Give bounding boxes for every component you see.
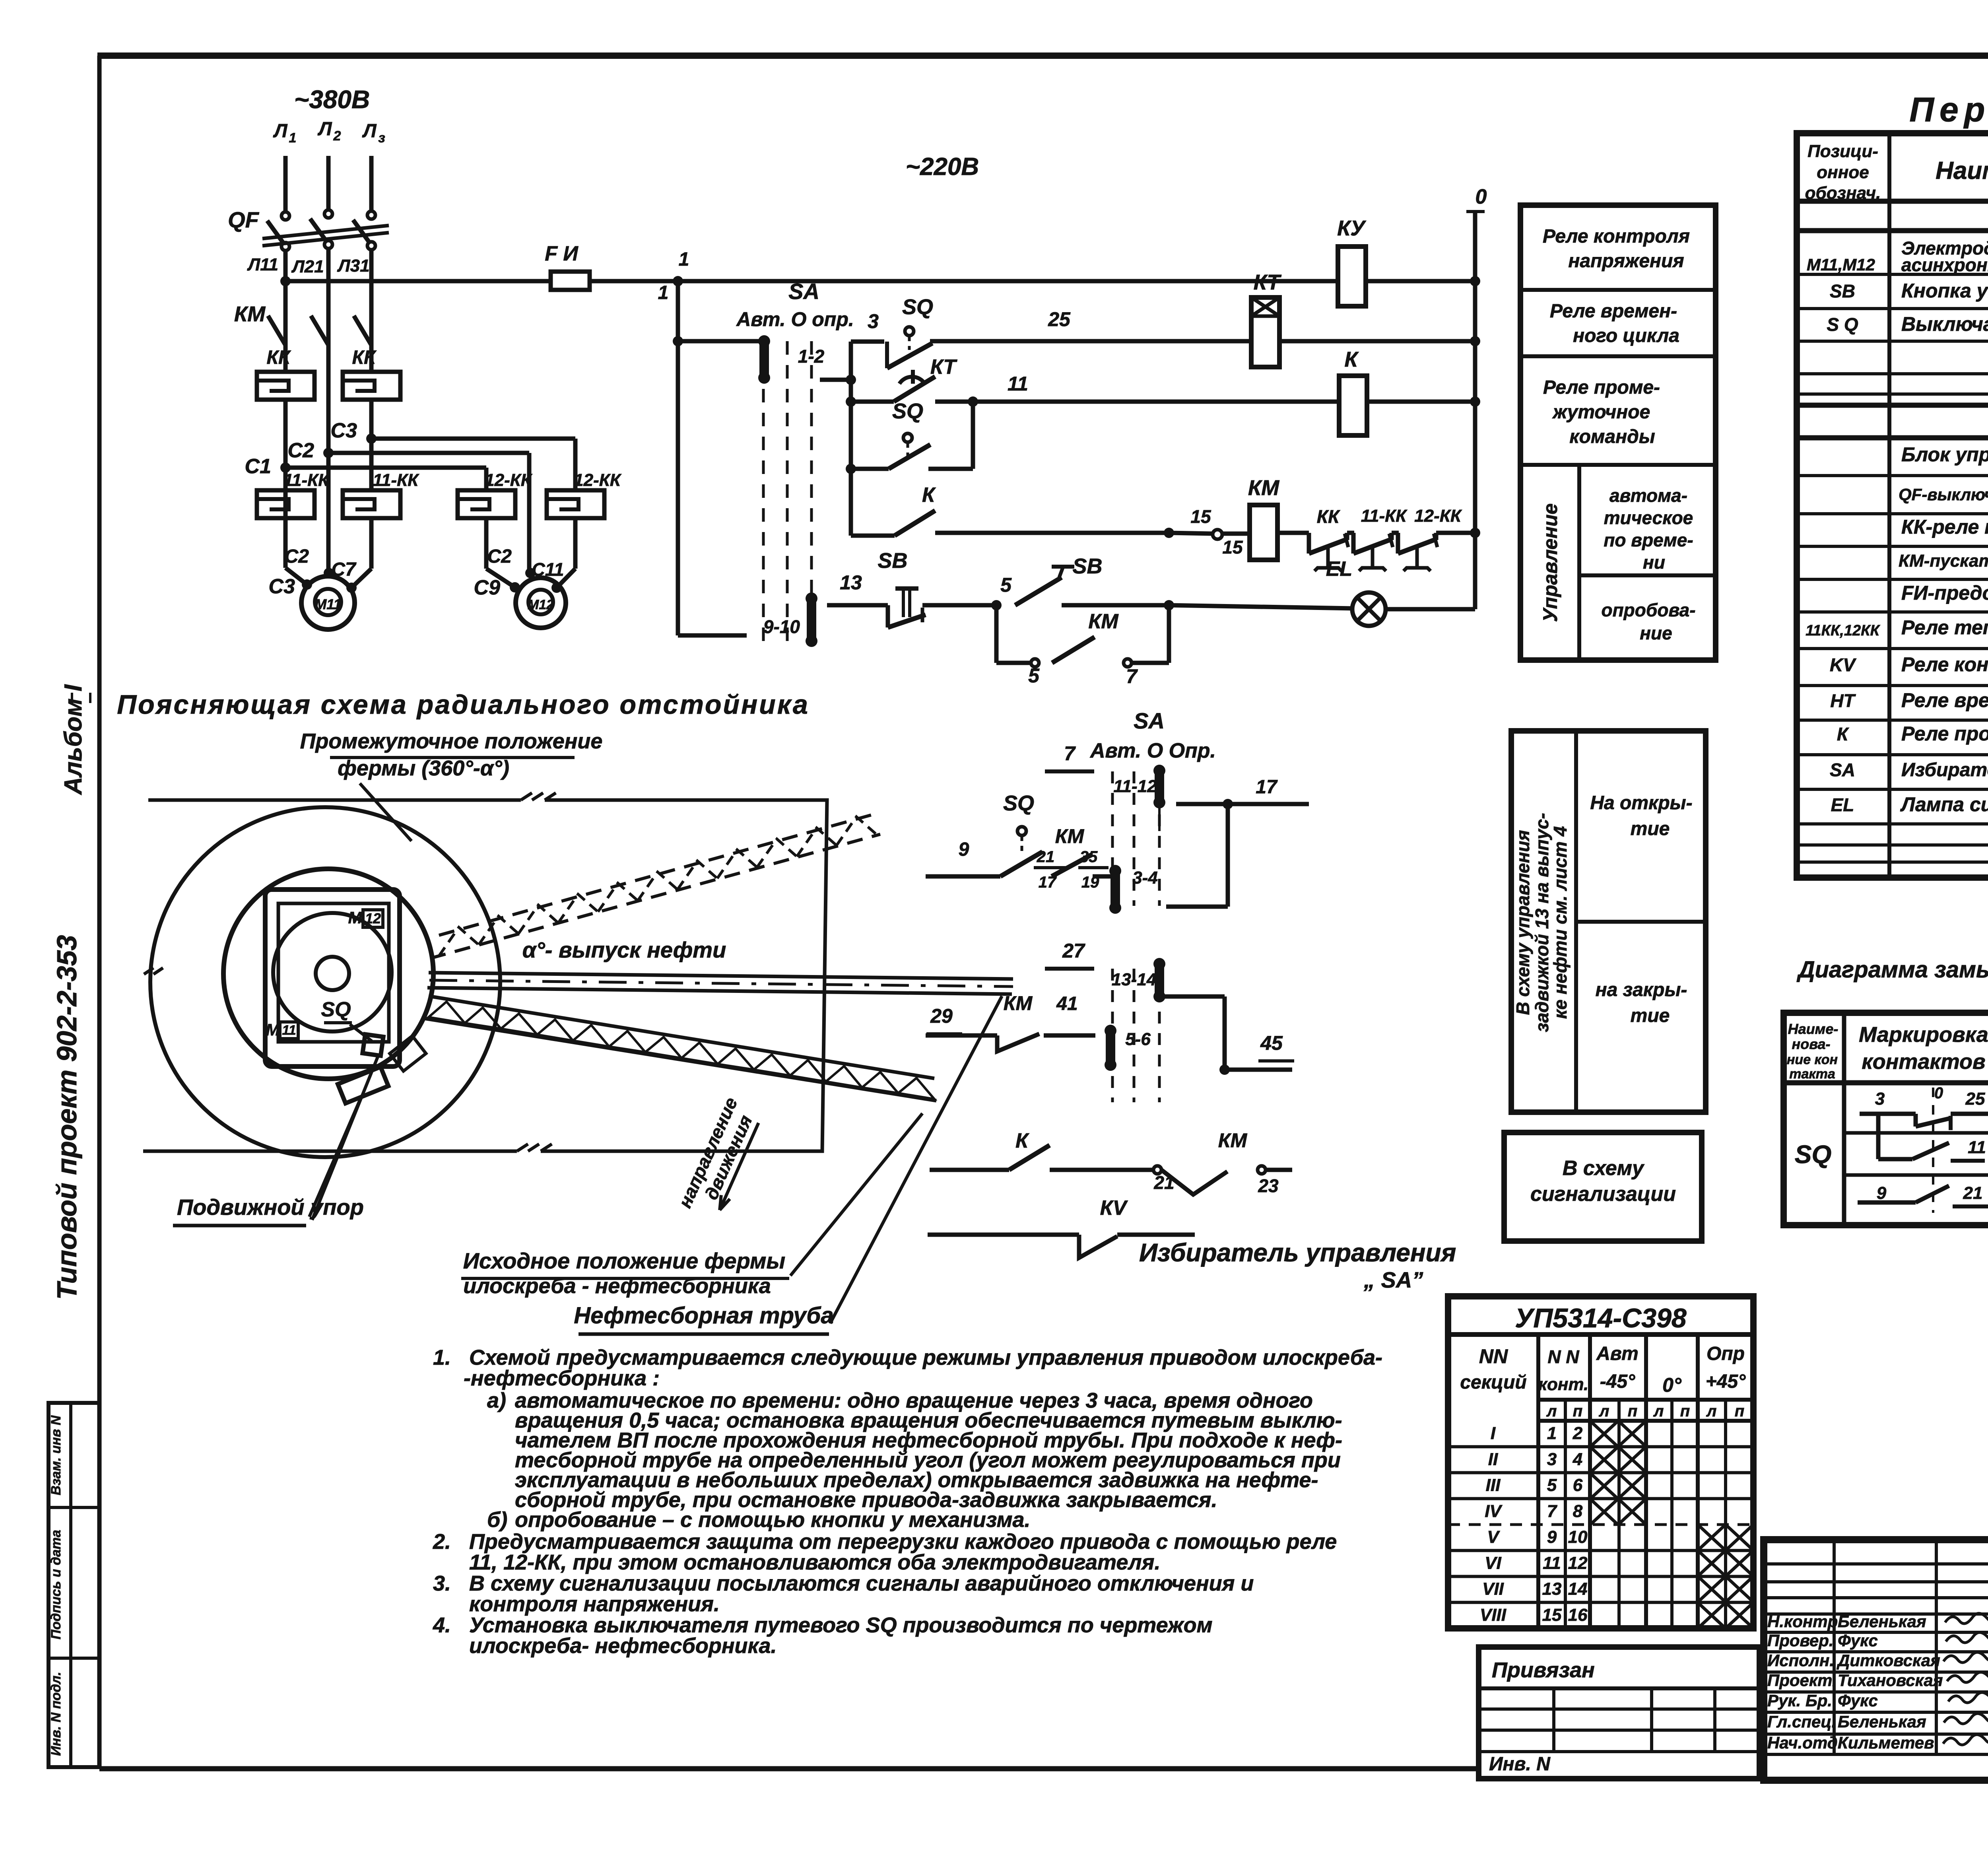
svg-text:Нач.отд.: Нач.отд.: [1767, 1733, 1842, 1752]
svg-text:13: 13: [840, 571, 862, 594]
svg-text:Наименование: Наименование: [1936, 157, 1988, 185]
svg-text:УП5314-С398: УП5314-С398: [1515, 1303, 1687, 1333]
svg-text:жуточное: жуточное: [1552, 402, 1650, 423]
svg-text:асинхронный: асинхронный: [1901, 254, 1988, 275]
svg-text:41: 41: [1056, 993, 1077, 1014]
svg-text:Авт. О Опр.: Авт. О Опр.: [1089, 739, 1216, 762]
svg-text:Л: Л: [318, 118, 332, 140]
svg-text:Фукс: Фукс: [1838, 1691, 1878, 1710]
svg-text:Тихановская: Тихановская: [1838, 1671, 1943, 1690]
svg-text:11-КК: 11-КК: [283, 470, 330, 490]
svg-text:В схему управления: В схему управления: [1512, 830, 1533, 1015]
svg-text:В схему: В схему: [1563, 1157, 1645, 1180]
svg-text:Дитковская: Дитковская: [1837, 1651, 1940, 1670]
svg-text:I: I: [1491, 1424, 1496, 1443]
svg-text:Схемой предусматривается сле: Схемой предусматривается следующие режим…: [469, 1346, 1382, 1369]
svg-text:9: 9: [959, 839, 969, 860]
svg-text:Н.контр.: Н.контр.: [1767, 1612, 1842, 1631]
svg-text:13: 13: [1542, 1579, 1562, 1599]
svg-text:КК-реле тепловое: КК-реле тепловое: [1901, 516, 1988, 538]
svg-text:КК: КК: [352, 347, 377, 368]
svg-text:КУ: КУ: [1337, 216, 1366, 240]
svg-text:Взам. инв N: Взам. инв N: [49, 1415, 64, 1495]
svg-text:обознач.: обознач.: [1805, 183, 1881, 203]
svg-text:15: 15: [1190, 506, 1211, 527]
svg-text:Наиме-: Наиме-: [1788, 1021, 1839, 1037]
svg-text:Исполн.: Исполн.: [1767, 1651, 1834, 1670]
svg-text:КК: КК: [1317, 506, 1340, 527]
svg-text:8: 8: [1573, 1501, 1583, 1521]
svg-text:Реле контроля напряж.: Реле контроля напряж.: [1901, 653, 1988, 676]
svg-text:0: 0: [1934, 1084, 1943, 1102]
svg-text:опробование – с помощью кноп: опробование – с помощью кнопки у механиз…: [515, 1508, 1031, 1532]
svg-text:Подпись и дата: Подпись и дата: [49, 1530, 64, 1639]
svg-text:л: л: [1706, 1402, 1717, 1420]
svg-text:С2: С2: [487, 546, 512, 567]
svg-text:2: 2: [1573, 1424, 1583, 1443]
svg-text:КV: КV: [1100, 1197, 1128, 1220]
svg-text:Л11: Л11: [247, 255, 278, 274]
svg-text:п: п: [1680, 1402, 1690, 1420]
svg-text:М11,М12: М11,М12: [1807, 255, 1875, 274]
svg-text:Позици-: Позици-: [1807, 142, 1878, 161]
svg-text:Кильметев: Кильметев: [1838, 1733, 1934, 1752]
svg-text:5: 5: [1000, 574, 1012, 596]
svg-text:илоскреба - нефтесборника: илоскреба - нефтесборника: [463, 1274, 771, 1298]
svg-text:5: 5: [1028, 664, 1040, 687]
svg-text:илоскреба- нефтесборника.: илоскреба- нефтесборника.: [469, 1634, 777, 1658]
svg-text:IV: IV: [1485, 1501, 1503, 1521]
svg-text:л: л: [1546, 1402, 1557, 1420]
svg-text:контроля напряжения.: контроля напряжения.: [469, 1592, 720, 1616]
svg-text:SQ: SQ: [321, 998, 351, 1021]
svg-text:4: 4: [1573, 1449, 1582, 1469]
svg-text:конт.: конт.: [1538, 1375, 1589, 1394]
svg-text:тие: тие: [1631, 818, 1670, 839]
svg-text:III: III: [1486, 1476, 1501, 1495]
svg-text:6: 6: [1573, 1476, 1583, 1495]
svg-text:Диаграмма замыканий контакто: Диаграмма замыканий контактов нулевого в…: [1796, 957, 1988, 983]
svg-text:Лампа сигнальная: Лампа сигнальная: [1900, 793, 1988, 816]
svg-text:Авт: Авт: [1596, 1343, 1639, 1364]
svg-text:Типовой проект 902-2-353: Типовой проект 902-2-353: [51, 935, 82, 1299]
svg-text:фермы (360°-α°): фермы (360°-α°): [338, 756, 509, 780]
svg-text:Избиратель управления: Избиратель управления: [1139, 1238, 1456, 1267]
svg-text:SQ: SQ: [902, 295, 933, 319]
svg-text:В схему сигнализации посыла: В схему сигнализации посылаются сигналы …: [469, 1571, 1254, 1595]
svg-text:а): а): [487, 1389, 506, 1412]
svg-text:КМ: КМ: [234, 302, 266, 326]
svg-text:КТ: КТ: [1254, 270, 1282, 294]
svg-text:ЕL: ЕL: [1831, 794, 1854, 815]
svg-text:по време-: по време-: [1604, 530, 1693, 550]
svg-text:SQ: SQ: [1003, 791, 1034, 815]
svg-text:25: 25: [1965, 1089, 1985, 1109]
svg-text:п: п: [1573, 1402, 1582, 1420]
svg-text:SA: SA: [788, 279, 819, 304]
svg-text:М: М: [348, 908, 363, 927]
svg-text:3: 3: [1875, 1089, 1885, 1109]
svg-text:М: М: [266, 1020, 280, 1039]
svg-text:EL: EL: [1326, 557, 1352, 581]
svg-text:S Q: S Q: [1827, 314, 1858, 335]
svg-text:КМ: КМ: [1055, 825, 1085, 847]
svg-text:3.: 3.: [433, 1571, 451, 1595]
svg-text:2: 2: [333, 128, 341, 144]
svg-text:Провер.: Провер.: [1767, 1631, 1834, 1650]
svg-text:К: К: [1344, 348, 1359, 371]
svg-text:1: 1: [1547, 1424, 1557, 1443]
svg-text:45: 45: [1260, 1032, 1283, 1054]
svg-text:-45°: -45°: [1600, 1371, 1635, 1392]
svg-text:Привязан: Привязан: [1492, 1658, 1595, 1682]
svg-text:На откры-: На откры-: [1590, 793, 1692, 814]
svg-text:14: 14: [1568, 1579, 1588, 1599]
svg-text:ние кон: ние кон: [1787, 1052, 1838, 1067]
svg-text:напряжения: напряжения: [1568, 251, 1684, 272]
svg-text:КТ: КТ: [930, 355, 958, 379]
svg-text:опробова-: опробова-: [1601, 600, 1695, 620]
svg-text:п: п: [1735, 1402, 1744, 1420]
svg-text:15: 15: [1542, 1605, 1562, 1625]
svg-text:11-12: 11-12: [1113, 777, 1157, 796]
svg-text:3: 3: [868, 310, 879, 332]
svg-text:3: 3: [1547, 1449, 1557, 1469]
svg-text:13-14: 13-14: [1112, 970, 1157, 989]
svg-text:SA: SA: [1830, 759, 1855, 780]
svg-text:Беленькая: Беленькая: [1838, 1612, 1926, 1631]
svg-text:1: 1: [679, 249, 689, 270]
svg-text:Выключатель путевой: Выключатель путевой: [1901, 313, 1988, 335]
svg-text:С3: С3: [269, 575, 295, 598]
svg-text:5: 5: [1547, 1476, 1557, 1495]
svg-text:ние: ние: [1640, 623, 1672, 643]
svg-text:С7: С7: [331, 559, 357, 580]
svg-text:11: 11: [1968, 1138, 1986, 1157]
svg-text:29: 29: [930, 1005, 953, 1027]
svg-text:тическое: тическое: [1604, 507, 1693, 528]
svg-text:ного цикла: ного цикла: [1573, 325, 1679, 346]
svg-text:35: 35: [1080, 848, 1098, 866]
svg-text:С9: С9: [474, 576, 501, 599]
svg-text:23: 23: [1258, 1175, 1279, 1196]
svg-text:С1: С1: [245, 455, 271, 478]
svg-text:17: 17: [1256, 777, 1278, 798]
svg-text:Л31: Л31: [337, 256, 369, 276]
svg-text:л: л: [1653, 1402, 1664, 1420]
svg-text:Фукс: Фукс: [1838, 1631, 1878, 1650]
svg-text:Маркировка: Маркировка: [1859, 1023, 1988, 1047]
svg-text:Блок управления: Блок управления: [1901, 443, 1988, 466]
svg-text:SB: SB: [1830, 281, 1855, 301]
svg-text:Опр: Опр: [1706, 1343, 1745, 1364]
svg-text:секций: секций: [1460, 1372, 1526, 1393]
svg-text:11: 11: [1543, 1553, 1561, 1573]
svg-text:автома-: автома-: [1609, 485, 1687, 506]
svg-text:+45°: +45°: [1706, 1371, 1746, 1392]
svg-text:N N: N N: [1547, 1346, 1579, 1367]
svg-text:такта: такта: [1789, 1066, 1835, 1082]
svg-text:21: 21: [1037, 848, 1055, 866]
svg-text:КМ-пускатель магнитный: КМ-пускатель магнитный: [1899, 551, 1988, 571]
svg-text:команды: команды: [1569, 426, 1655, 447]
svg-text:К: К: [1015, 1129, 1029, 1152]
svg-text:V: V: [1487, 1527, 1500, 1547]
svg-text:SA: SA: [1134, 708, 1165, 733]
svg-text:Авт. О опр.: Авт. О опр.: [736, 308, 854, 330]
svg-text:4.: 4.: [433, 1613, 451, 1637]
svg-text:Реле контроля: Реле контроля: [1543, 226, 1690, 247]
svg-text:1: 1: [658, 282, 669, 303]
svg-text:Проект.: Проект.: [1767, 1671, 1837, 1690]
svg-text:KV: KV: [1830, 655, 1856, 675]
svg-text:Реле времени: Реле времени: [1901, 689, 1988, 711]
svg-text:Поясняющая схема радиальн: Поясняющая схема радиального отстойника: [117, 690, 810, 720]
svg-text:11КК,12КК: 11КК,12КК: [1806, 622, 1880, 639]
svg-text:Предусматривается защита о: Предусматривается защита от перегрузки к…: [469, 1530, 1337, 1554]
svg-text:7: 7: [1126, 665, 1138, 688]
svg-text:Реле времен-: Реле времен-: [1550, 301, 1677, 322]
svg-text:М12: М12: [528, 597, 554, 612]
svg-text:F И: F И: [545, 242, 579, 265]
svg-text:Избиратель управления: Избиратель управления: [1901, 759, 1988, 781]
svg-text:л: л: [1599, 1402, 1609, 1420]
svg-text:0: 0: [1475, 185, 1487, 208]
svg-text:Исходное положение фермы: Исходное положение фермы: [463, 1248, 786, 1273]
svg-text:11-КК: 11-КК: [373, 470, 419, 490]
svg-text:11: 11: [282, 1023, 296, 1038]
svg-text:п: п: [1628, 1402, 1637, 1420]
svg-text:Промежуточное положение: Промежуточное положение: [300, 729, 603, 753]
svg-text:SB: SB: [1072, 554, 1102, 578]
svg-text:з: з: [378, 130, 385, 146]
svg-text:25: 25: [1048, 308, 1071, 330]
svg-text:SQ: SQ: [1795, 1140, 1831, 1169]
svg-text:ни: ни: [1643, 552, 1665, 573]
svg-text:задвижкой 13 на выпус-: задвижкой 13 на выпус-: [1532, 813, 1552, 1032]
svg-text:Инв. N подл.: Инв. N подл.: [49, 1672, 64, 1756]
svg-text:VII: VII: [1482, 1579, 1504, 1599]
svg-text:10: 10: [1568, 1527, 1588, 1547]
svg-text:7: 7: [1547, 1501, 1558, 1521]
svg-text:КК: КК: [266, 347, 291, 368]
svg-text:контактов: контактов: [1862, 1050, 1985, 1074]
svg-text:КМ: КМ: [1248, 476, 1279, 500]
svg-text:НТ: НТ: [1830, 690, 1856, 711]
svg-text:12: 12: [365, 910, 381, 927]
svg-text:Реле проме-: Реле проме-: [1543, 377, 1660, 398]
svg-text:QF-выключатель автоматич: QF-выключатель автоматич: [1899, 485, 1988, 504]
svg-text:на закры-: на закры-: [1596, 979, 1687, 1000]
svg-text:„ SA”: „ SA”: [1363, 1267, 1423, 1292]
svg-text:онное: онное: [1817, 163, 1869, 182]
svg-text:3-4: 3-4: [1132, 868, 1158, 888]
svg-text:α°- выпуск нефти: α°- выпуск нефти: [522, 937, 726, 962]
svg-text:5-6: 5-6: [1125, 1029, 1151, 1049]
svg-text:Кнопка управления: Кнопка управления: [1901, 280, 1988, 302]
svg-text:11, 12-КК, при этом останов: 11, 12-КК, при этом остановливаются оба …: [469, 1550, 1160, 1574]
svg-text:0°: 0°: [1662, 1374, 1682, 1396]
svg-text:Л: Л: [362, 120, 377, 142]
svg-text:NN: NN: [1479, 1345, 1508, 1367]
svg-text:М11: М11: [315, 596, 341, 612]
svg-text:1: 1: [289, 130, 297, 146]
svg-text:С3: С3: [331, 419, 357, 442]
svg-text:Перечень элементов: Перечень элементов: [1909, 91, 1988, 129]
svg-text:Инв. N: Инв. N: [1489, 1754, 1551, 1775]
svg-text:~380В: ~380В: [294, 85, 370, 114]
svg-text:21: 21: [1963, 1183, 1983, 1203]
svg-text:Л21: Л21: [291, 257, 324, 276]
svg-text:~220В: ~220В: [906, 153, 979, 181]
svg-text:12: 12: [1568, 1553, 1588, 1573]
svg-text:11: 11: [1008, 373, 1028, 395]
svg-text:1.: 1.: [433, 1346, 451, 1369]
svg-text:SQ: SQ: [892, 399, 923, 423]
svg-text:9: 9: [1547, 1527, 1557, 1547]
svg-text:Нефтесборная труба: Нефтесборная труба: [574, 1303, 833, 1329]
svg-text:Гл.спец.: Гл.спец.: [1767, 1712, 1836, 1731]
svg-text:Управление: Управление: [1539, 503, 1561, 622]
svg-text:КМ: КМ: [1088, 610, 1119, 633]
svg-text:Установка выключателя путев: Установка выключателя путевого SQ произв…: [469, 1613, 1213, 1637]
svg-text:12-КК: 12-КК: [574, 470, 622, 490]
svg-text:С11: С11: [532, 559, 564, 580]
svg-text:Реле промежуточное: Реле промежуточное: [1901, 723, 1988, 745]
svg-text:11-КК: 11-КК: [1361, 506, 1408, 526]
svg-text:Подвижной упор: Подвижной упор: [177, 1195, 364, 1220]
svg-text:С2: С2: [285, 546, 309, 567]
svg-text:12-КК: 12-КК: [1414, 506, 1462, 526]
svg-text:-нефтесборника :: -нефтесборника :: [464, 1366, 660, 1390]
svg-text:FИ-предохранитель: FИ-предохранитель: [1901, 582, 1988, 604]
svg-text:нова-: нова-: [1792, 1036, 1830, 1052]
svg-text:Альбом I: Альбом I: [60, 684, 87, 796]
svg-text:9: 9: [1877, 1183, 1887, 1203]
svg-text:К: К: [1837, 724, 1849, 744]
svg-text:27: 27: [1062, 940, 1085, 962]
svg-text:К: К: [922, 484, 936, 507]
svg-text:VI: VI: [1485, 1553, 1501, 1573]
svg-text:КМ: КМ: [1218, 1129, 1248, 1152]
svg-text:ке нефти см. лист 4: ке нефти см. лист 4: [1550, 826, 1571, 1019]
svg-text:Беленькая: Беленькая: [1838, 1712, 1926, 1731]
svg-text:сигнализации: сигнализации: [1530, 1183, 1676, 1206]
svg-text:16: 16: [1568, 1605, 1588, 1625]
svg-text:Рук. Бр.: Рук. Бр.: [1767, 1691, 1832, 1710]
svg-text:С2: С2: [288, 439, 315, 462]
svg-text:QF: QF: [228, 207, 260, 232]
svg-text:12-КК: 12-КК: [485, 470, 533, 490]
svg-text:Л: Л: [273, 120, 288, 142]
svg-text:2.: 2.: [433, 1530, 451, 1554]
svg-text:9-10: 9-10: [763, 616, 800, 637]
svg-text:тие: тие: [1631, 1005, 1670, 1026]
svg-text:15: 15: [1222, 537, 1243, 557]
svg-text:VIII: VIII: [1480, 1605, 1507, 1625]
svg-text:Реле тепловое: Реле тепловое: [1901, 616, 1988, 639]
svg-text:II: II: [1488, 1449, 1498, 1469]
svg-text:б): б): [487, 1508, 507, 1532]
svg-text:7: 7: [1064, 742, 1076, 765]
svg-text:SB: SB: [878, 549, 907, 573]
